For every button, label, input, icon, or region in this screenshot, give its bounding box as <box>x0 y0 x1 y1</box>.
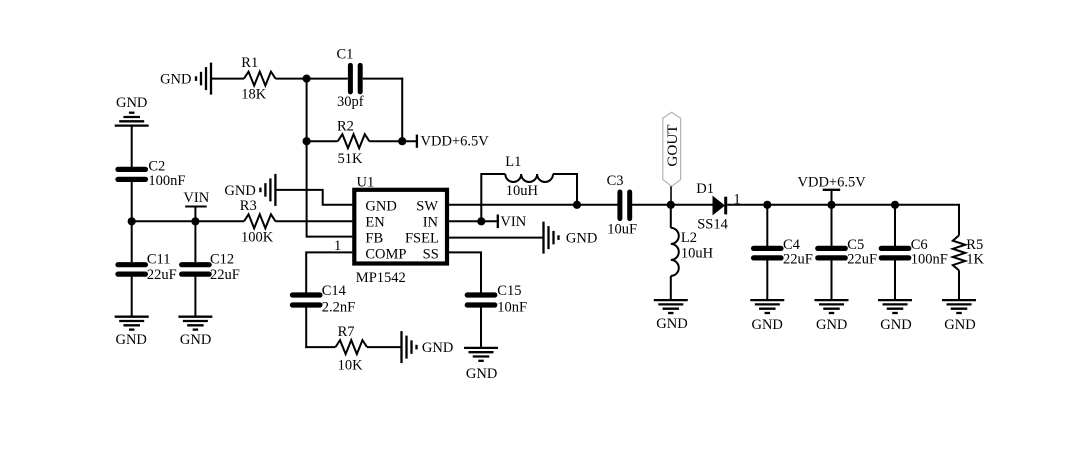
svg-text:GND: GND <box>422 340 453 356</box>
ground (rotated) at R7 right <box>402 331 454 363</box>
svg-text:C15: C15 <box>497 283 521 299</box>
resistor R2 <box>337 118 369 167</box>
svg-text:22uF: 22uF <box>147 267 177 283</box>
ground (rotated) at R1 left <box>160 63 211 95</box>
ground (earth) under C4 <box>750 300 784 333</box>
capacitor C15 <box>467 283 527 315</box>
wire COMP pin <box>306 252 352 293</box>
svg-text:1K: 1K <box>966 252 984 268</box>
svg-text:10nF: 10nF <box>497 300 527 316</box>
wire output rail <box>727 204 959 206</box>
wire <box>194 221 196 262</box>
capacitor C2 <box>118 159 186 189</box>
svg-text:C4: C4 <box>783 237 801 253</box>
svg-text:18K: 18K <box>241 87 266 103</box>
svg-text:SS: SS <box>423 247 439 263</box>
svg-text:R2: R2 <box>337 118 354 134</box>
svg-text:COMP: COMP <box>365 247 406 263</box>
svg-text:100nF: 100nF <box>911 252 948 268</box>
svg-text:C6: C6 <box>911 237 928 253</box>
ground (rotated) at U1 GND pin <box>224 174 275 206</box>
resistor R5 <box>953 204 985 300</box>
svg-text:GND: GND <box>116 95 147 111</box>
svg-text:GND: GND <box>466 366 497 382</box>
wire FB vertical node <box>306 79 308 238</box>
capacitor C6 <box>881 205 948 300</box>
svg-text:R3: R3 <box>240 198 257 214</box>
capacitor C4 <box>754 205 813 300</box>
svg-text:L1: L1 <box>505 154 521 170</box>
capacitor C3 <box>607 173 637 237</box>
wire IN pin <box>447 220 497 222</box>
svg-text:IN: IN <box>423 215 439 231</box>
resistor R1 <box>241 55 275 103</box>
svg-text:D1: D1 <box>696 181 714 197</box>
svg-text:MP1542: MP1542 <box>356 270 406 286</box>
wire <box>480 308 482 348</box>
wire SS pin <box>447 252 481 293</box>
wire GND pin <box>275 190 352 205</box>
node VDD junction <box>827 201 835 209</box>
svg-text:C3: C3 <box>607 173 624 189</box>
svg-text:GND: GND <box>566 231 597 247</box>
svg-text:GND: GND <box>180 332 211 348</box>
inductor L1 <box>481 154 577 221</box>
svg-text:FB: FB <box>365 231 383 247</box>
ground (earth) under R5 <box>942 300 976 333</box>
svg-text:100nF: 100nF <box>148 173 185 189</box>
wire <box>194 277 196 317</box>
svg-text:GND: GND <box>656 316 687 332</box>
svg-text:C11: C11 <box>147 252 171 268</box>
resistor R3 <box>240 198 276 245</box>
svg-text:22uF: 22uF <box>847 252 877 268</box>
svg-text:GND: GND <box>751 317 782 333</box>
wire <box>305 308 307 349</box>
ground (earth) under C15 <box>464 348 498 382</box>
node R1/C1/FB junction <box>303 75 311 83</box>
svg-text:GOUT: GOUT <box>664 124 681 167</box>
svg-text:2.2nF: 2.2nF <box>322 300 355 316</box>
capacitor C14 <box>292 283 355 315</box>
node R2 right junction <box>398 137 406 145</box>
svg-text:EN: EN <box>365 215 385 231</box>
node GOUT/L2 junction <box>667 201 675 209</box>
wire <box>369 140 417 142</box>
power terminal VDD+6.5V (top) <box>798 175 867 205</box>
svg-text:C12: C12 <box>210 252 234 268</box>
node R2 left junction <box>303 137 311 145</box>
svg-text:C14: C14 <box>322 283 347 299</box>
wire <box>211 78 244 80</box>
node L1/IN junction <box>477 217 485 225</box>
diode D1 SS14 <box>696 181 740 233</box>
svg-text:L2: L2 <box>681 230 697 246</box>
svg-text:10uF: 10uF <box>607 221 637 237</box>
svg-text:R7: R7 <box>338 324 355 340</box>
svg-text:10uH: 10uH <box>681 245 714 261</box>
svg-text:VIN: VIN <box>183 190 209 206</box>
svg-text:GND: GND <box>880 317 911 333</box>
power terminal VDD+6.5V (right of R2) <box>417 134 489 150</box>
svg-text:22uF: 22uF <box>210 267 240 283</box>
inductor L2 <box>671 205 714 300</box>
node VIN rail left <box>128 217 136 225</box>
node L1/SW junction <box>573 201 581 209</box>
svg-text:U1: U1 <box>357 175 375 191</box>
wire <box>632 204 714 206</box>
ground (rotated) at FSEL <box>544 222 598 254</box>
svg-text:51K: 51K <box>338 151 364 167</box>
wire <box>131 182 133 262</box>
svg-text:GND: GND <box>816 317 847 333</box>
wire <box>131 277 133 317</box>
svg-text:22uF: 22uF <box>783 252 813 268</box>
node C6 junction <box>891 201 899 209</box>
wire VIN rail <box>132 220 244 222</box>
svg-text:VIN: VIN <box>500 214 526 230</box>
terminal VIN at IN pin <box>498 214 527 230</box>
capacitor C5 <box>818 205 877 300</box>
svg-text:GND: GND <box>365 199 396 215</box>
ground (earth) under L2 <box>654 300 688 332</box>
svg-text:R5: R5 <box>966 237 983 253</box>
svg-text:R1: R1 <box>241 55 258 71</box>
ground (earth) under C5 <box>815 300 849 333</box>
svg-text:GND: GND <box>224 183 255 199</box>
wire SW rail <box>447 204 618 206</box>
capacitor C11 <box>118 252 177 284</box>
svg-text:SW: SW <box>416 199 438 215</box>
resistor R7 <box>336 324 368 373</box>
svg-text:VDD+6.5V: VDD+6.5V <box>798 175 867 191</box>
svg-text:GND: GND <box>115 332 146 348</box>
node C4 junction <box>763 201 771 209</box>
wire FB pin <box>307 236 353 238</box>
svg-text:10K: 10K <box>338 358 364 374</box>
svg-text:30pf: 30pf <box>337 94 364 110</box>
ground GND top-left (earth, inverted) <box>115 95 149 126</box>
node VIN junction <box>191 217 199 225</box>
svg-text:10uH: 10uH <box>506 183 539 199</box>
svg-text:C5: C5 <box>847 237 864 253</box>
svg-text:C1: C1 <box>337 47 354 63</box>
wire <box>131 126 133 167</box>
wire <box>276 78 348 80</box>
wire <box>307 140 338 142</box>
svg-text:SS14: SS14 <box>697 217 728 233</box>
capacitor C1 <box>337 47 364 111</box>
ground (earth) under C11 <box>115 317 149 348</box>
op-amp U1 MP1542 box <box>354 175 447 286</box>
net label VIN <box>183 190 209 221</box>
ground (earth) under C12 <box>178 317 212 348</box>
svg-text:1: 1 <box>334 238 341 254</box>
capacitor C12 <box>182 252 240 284</box>
wire FSEL pin <box>447 237 544 239</box>
wire <box>363 78 403 80</box>
wire <box>367 346 402 348</box>
wire EN <box>276 220 353 222</box>
ground (earth) under C6 <box>878 300 912 333</box>
svg-text:FSEL: FSEL <box>405 231 439 247</box>
svg-text:GND: GND <box>160 71 191 87</box>
svg-text:VDD+6.5V: VDD+6.5V <box>421 134 490 150</box>
net flag GOUT <box>663 112 681 205</box>
svg-text:GND: GND <box>944 317 975 333</box>
svg-text:100K: 100K <box>241 229 274 245</box>
